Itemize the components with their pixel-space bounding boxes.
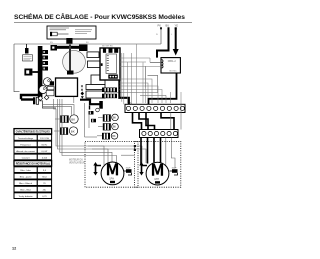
wire with arrow into relay [175,28,177,50]
lamp harness elbow [80,100,103,110]
wire board to strip A [119,80,128,104]
svg-text:Tension/voltage: Tension/voltage [18,137,34,140]
lamp harness rails [85,103,98,137]
fuse F1 [25,48,29,54]
svg-text:Tachy bobinée: Tachy bobinée [19,196,34,198]
switch box S3 [91,75,105,85]
lamp L2 [60,127,78,135]
svg-text:Absorb. de courant: Absorb. de courant [16,150,35,153]
svg-text:SCHÉMA DE CÂBLAGE - Pour KVWC9: SCHÉMA DE CÂBLAGE - Pour KVWC958KSS Modè… [14,13,186,21]
black block beside C1 [50,81,54,85]
svg-text:BK: BK [112,134,116,138]
dashed enclosure motor 1 [85,141,138,187]
svg-text:✕: ✕ [81,88,84,92]
note label box [23,55,33,61]
coil feed wire [150,61,161,63]
motor 1 capacitor [124,168,132,176]
motor 2 ground arrow [139,162,147,176]
svg-text:12: 12 [12,247,16,251]
top edge terminal block [51,45,58,51]
motor 2 capacitor [170,168,178,176]
top edge component block [79,45,88,52]
lamp L1 [60,115,78,123]
svg-text:BK: BK [71,117,75,121]
spec table [14,129,52,134]
lamp L5 [102,133,118,140]
plug P3 [21,97,39,104]
wire neutral to relay (thin) [160,28,162,45]
control board box [100,48,120,80]
lamp L3 [103,114,118,122]
title [14,13,186,21]
junction dots on dashed edge [134,145,136,147]
motor 1 [101,162,124,185]
strip A corner wire [128,101,134,106]
wire J1 to harness [32,60,39,72]
relay K1 [161,58,180,73]
terminal strip B [140,130,179,138]
crossing wires above strip A [120,62,182,103]
thermal switch circle [39,86,47,94]
svg-text:120 VCA: 120 VCA [40,137,49,140]
svg-text:MOTEUR DU: MOTEUR DU [69,160,83,162]
enclosure top edge [14,43,161,45]
lamp L2 feed wire [54,130,60,132]
top edge bus wire [57,46,79,49]
lamp L4 feed wire [98,126,103,128]
svg-text:BK: BK [113,125,117,129]
capacitor C1 circle [43,78,51,86]
small part box 2 [46,90,54,95]
switch box S5 [86,91,105,98]
switch box S1 [87,52,99,58]
connector stack on harness [43,50,49,71]
wire relay to strip A [149,73,177,104]
harness elbow to plug [21,95,39,99]
small part box [47,87,54,90]
wire terminal squares [160,27,177,29]
left drop wire [26,44,28,48]
svg-text:60 Hz: 60 Hz [42,145,48,147]
motor 2 [146,162,169,185]
blower circle [63,50,86,73]
wire cord down through blower [69,45,71,72]
junction box [56,78,78,96]
title rule [14,22,192,24]
lamp L5 feed wire [97,135,102,137]
connector J1 [24,69,32,76]
svg-text:PK: PK [158,24,162,28]
thick wires strip B to motor 2 [141,138,175,169]
svg-text:1PH: 1PH [109,178,114,181]
svg-text:VENTILATEUR: VENTILATEUR [69,161,85,164]
striped connector row 1 [102,88,117,93]
svg-text:YE: YE [175,24,179,28]
svg-text:RÉSISTANCE DU MOTEUR (Ω): RÉSISTANCE DU MOTEUR (Ω) [16,163,50,166]
svg-text:Bleu - Blanch: Bleu - Blanch [19,183,33,185]
gray wires board fanout [120,44,171,130]
motor 1 top wire [121,154,134,156]
switch box S4 [86,85,105,90]
lamp L3 feed wire [98,116,103,118]
svg-text:4,5 A: 4,5 A [42,157,48,160]
lamp L1 feed wire [55,118,60,120]
wire line black thick to relay [157,28,169,58]
switch marks column [81,85,85,99]
cord connector under power box [66,38,72,44]
wires strip A to strip B [133,103,182,130]
terminal strip A [125,104,185,112]
svg-text:6,0 W: 6,0 W [42,151,49,153]
aux sense wire [105,75,158,92]
switch box S2 [88,61,101,68]
label left of motor 1 [69,160,85,165]
svg-text:DBKL-2: DBKL-2 [168,61,177,63]
diamond terminal 1 [38,96,43,101]
enclosure left edge [14,44,20,92]
lamp harness connectors [89,108,100,122]
lamp L4 [103,123,118,130]
svg-text:Bleu - jaune: Bleu - jaune [20,177,32,179]
svg-text:Fréquence: Fréquence [20,144,31,147]
wire plug right [39,101,56,108]
gray wires left to motors [54,99,147,165]
blob under blower [67,71,74,75]
svg-text:1PH: 1PH [154,178,159,181]
terminal labels top right [156,24,178,37]
dashed enclosure motor 2 [135,141,181,187]
striped connector row 2 [102,94,117,99]
svg-text:BK: BK [71,129,75,133]
main harness bar [38,46,43,97]
svg-text:BK WH RD: BK WH RD [102,45,113,47]
svg-text:CARACTÉRISTIQUES ÉLECTRIQUES: CARACTÉRISTIQUES ÉLECTRIQUES [16,131,50,134]
svg-text:BU: BU [166,24,170,28]
board lower connector [108,75,118,79]
diamond terminal 2 [44,95,49,100]
svg-text:Bleu - bleu: Bleu - bleu [20,170,31,172]
svg-text:Courant: Courant [22,157,30,160]
svg-text:NO NC: NO NC [170,70,177,72]
lamp feed bundle [43,97,75,115]
motor 1 ground arrow [93,162,101,176]
power supply box [47,26,96,39]
svg-text:BK: BK [113,116,117,120]
svg-text:Blan - Blan: Blan - Blan [20,190,31,192]
